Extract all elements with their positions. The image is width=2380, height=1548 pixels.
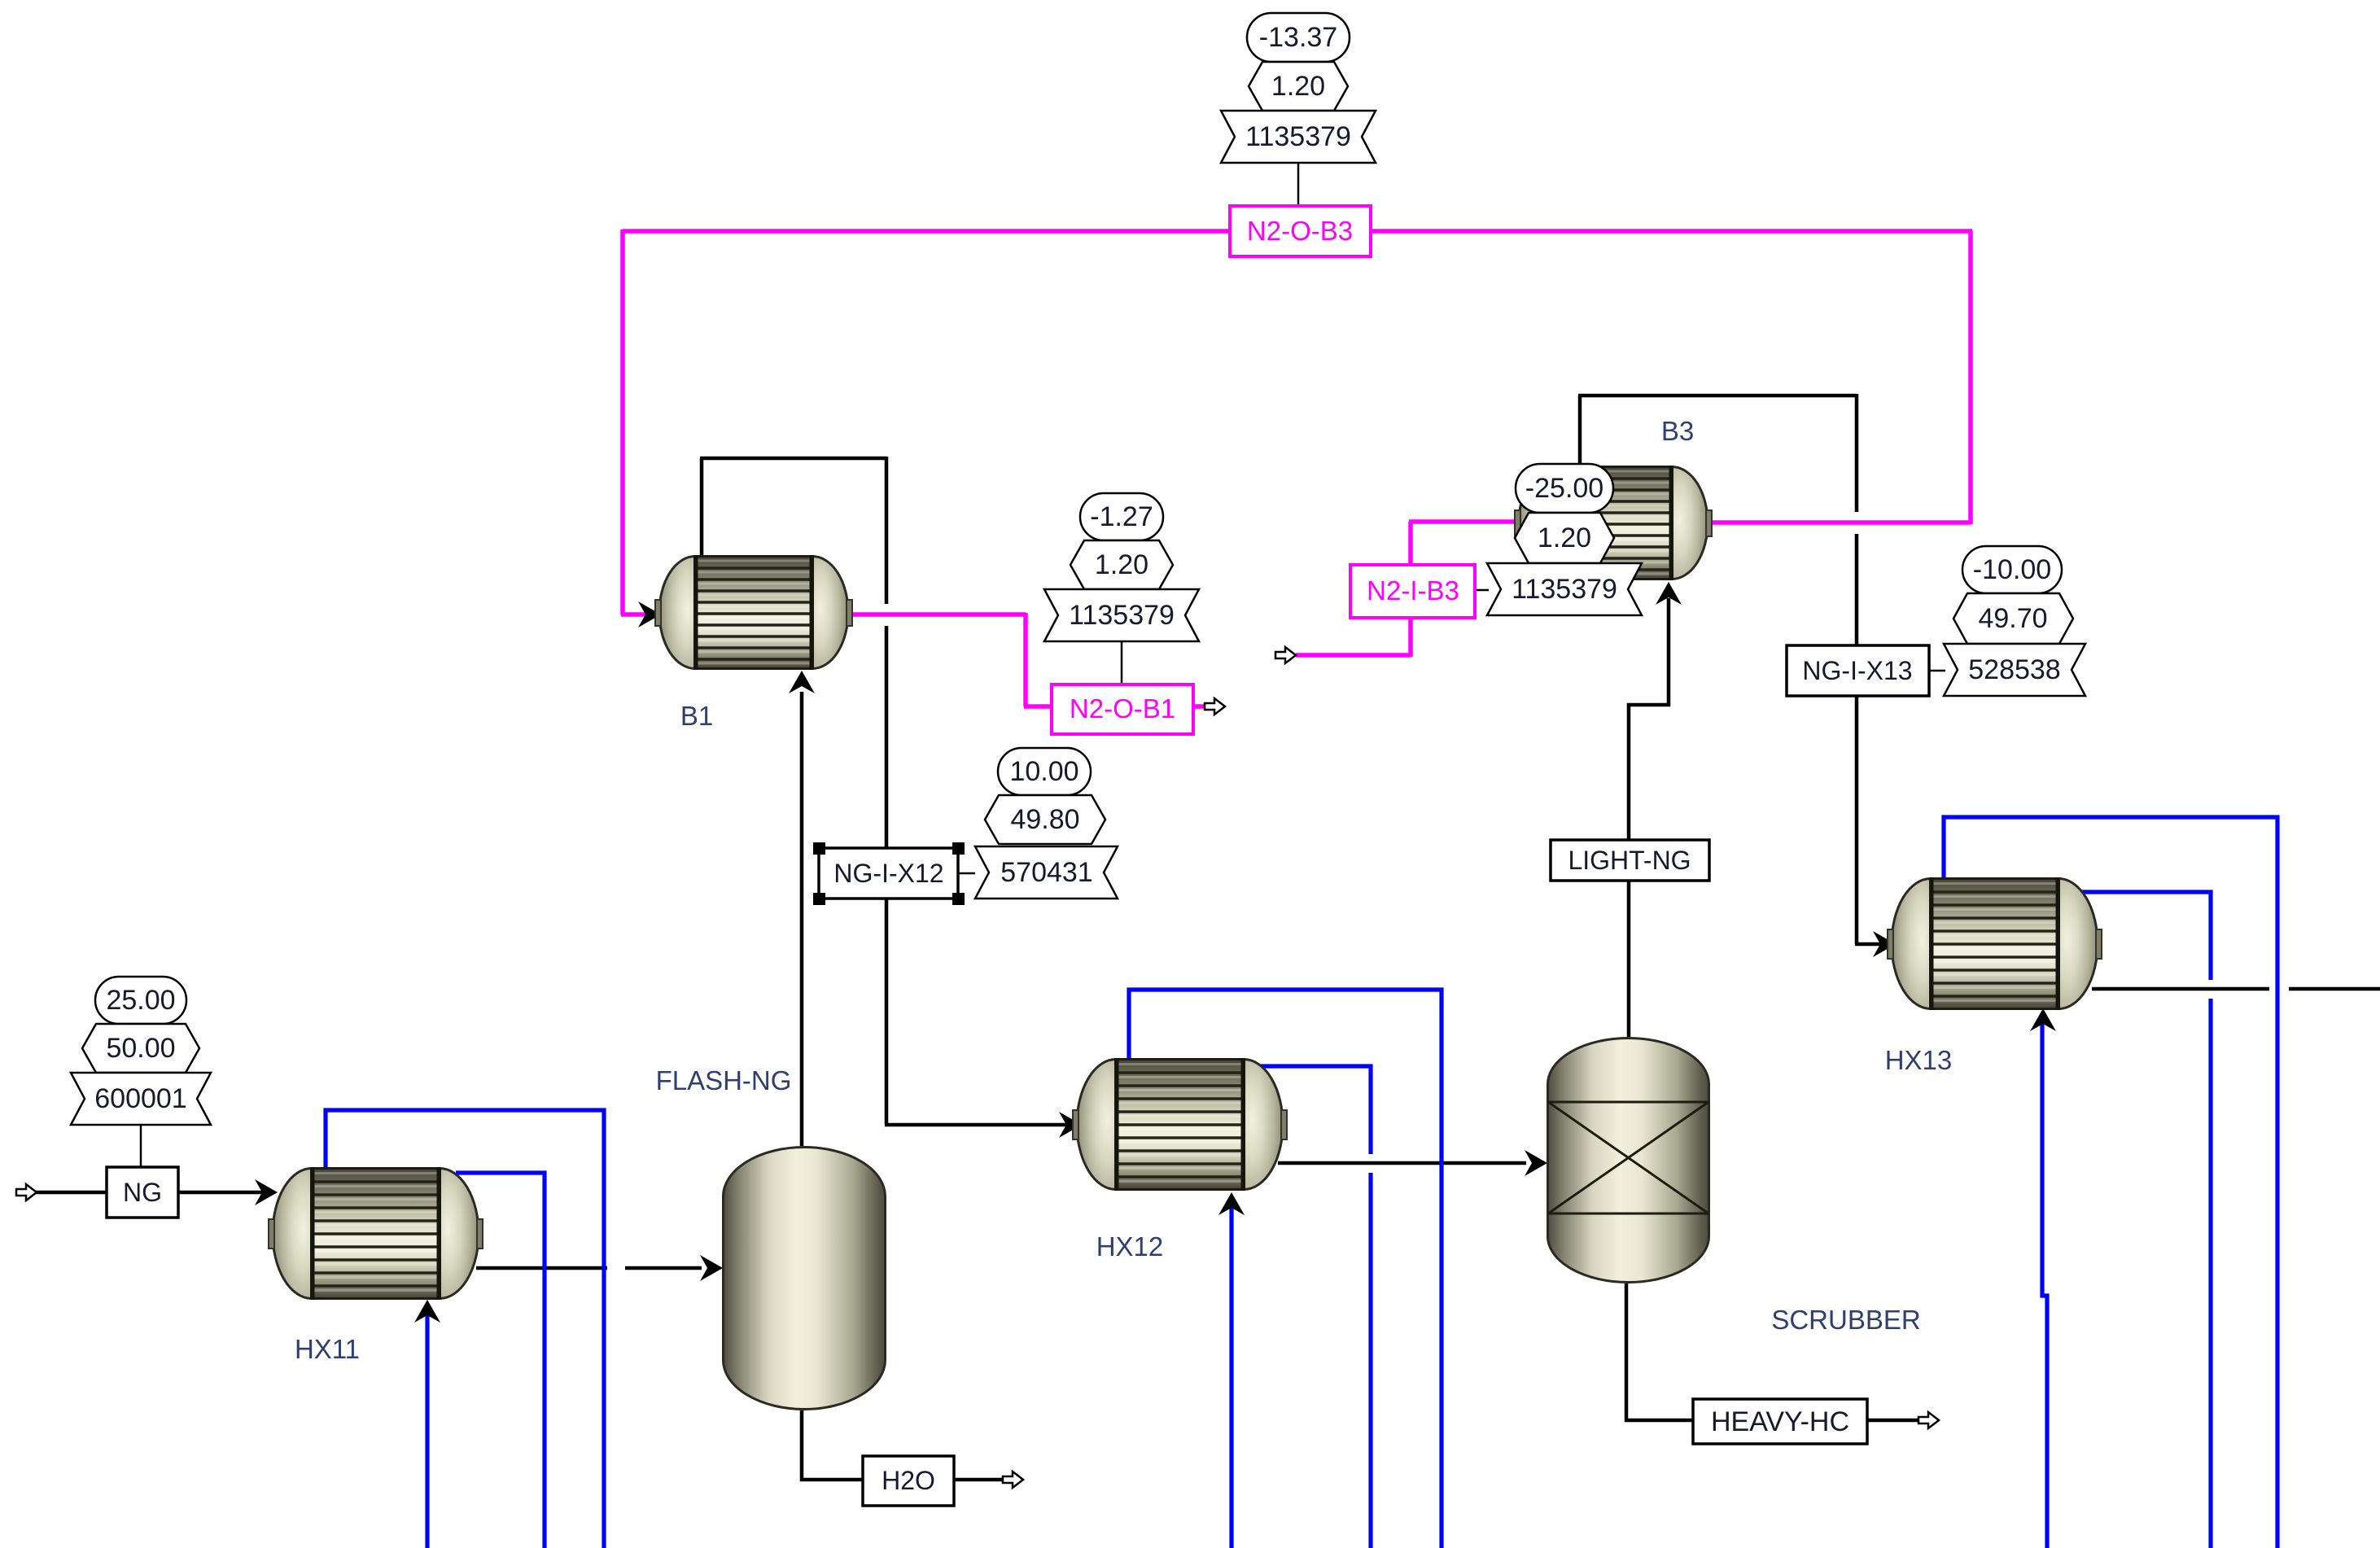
wire stream HX12 outlet to SCRUBBER — [1278, 1161, 1526, 1165]
wire stream HX13 outlet (right of blue hop) — [2289, 987, 2380, 991]
wire stream N2-I-B3 into B3 inlet — [1409, 519, 1519, 524]
svg-text:HX11: HX11 — [295, 1334, 360, 1364]
wire stream B1 top loop up segment — [700, 458, 704, 557]
selection handles NG-I-X12 — [813, 842, 965, 905]
svg-text:-13.37: -13.37 — [1259, 22, 1337, 53]
wire stream SCRUBBER bottom HEAVY-HC segment — [1626, 1283, 1693, 1420]
flag flow 1135379 (stream N2-O-B1) — [1044, 589, 1199, 641]
heat exchanger HX11 — [269, 1167, 483, 1300]
wire stream FLASH-NG bottom H2O down segment — [802, 1410, 863, 1480]
svg-text:SCRUBBER: SCRUBBER — [1771, 1305, 1920, 1335]
wire stream N2-O-B1 into label box — [1024, 704, 1052, 709]
source arrow N2-I-B3 feed — [1275, 647, 1296, 663]
flag connector line NG-I-X13 — [1929, 670, 1945, 672]
svg-text:HX13: HX13 — [1885, 1045, 1953, 1075]
stream label box N2-O-B1 — [1052, 684, 1193, 734]
wire stream N2-O-B1 drop segment — [1023, 613, 1028, 706]
wire stream B3 top loop up segment — [1578, 396, 1582, 467]
arrowhead into B1 inlet — [638, 601, 661, 628]
arrowhead into HX12 bottom (utility) — [1218, 1192, 1245, 1215]
wire utility HX11 inlet riser — [425, 1310, 429, 1548]
wire stream N2-O-B3 into B1 inlet — [621, 612, 647, 617]
flag connector line N2-I-B3 — [1475, 589, 1489, 592]
arrowhead into HX13 bottom (utility) — [2030, 1008, 2056, 1031]
wire stream LIGHT-NG mid segment with jog — [1629, 598, 1669, 840]
stream label box H2O — [863, 1456, 954, 1506]
flag connector line NG-I-X12 — [958, 872, 975, 875]
svg-text:1.20: 1.20 — [1271, 71, 1325, 102]
flag temperature 10.00 (stream NG-I-X12) — [998, 748, 1091, 795]
svg-text:49.70: 49.70 — [1978, 603, 2047, 634]
flag pressure 49.80 (stream NG-I-X12) — [985, 795, 1105, 844]
flag connector line NG — [140, 1125, 142, 1167]
sink arrow N2-O-B1 — [1205, 698, 1225, 715]
arrowhead into B1 bottom — [789, 671, 815, 693]
svg-text:-10.00: -10.00 — [1973, 554, 2051, 585]
wire stream N2-O-B1 stub to sink arrow — [1193, 704, 1205, 709]
wire stream N2-I-B3 feed horizontal — [1296, 653, 1411, 658]
svg-text:570431: 570431 — [1000, 857, 1092, 888]
flag flow 570431 (stream NG-I-X12) — [975, 846, 1118, 899]
arrowhead into HX11 inlet — [255, 1179, 278, 1205]
wire utility HX13 second line lower — [2208, 999, 2212, 1548]
arrowhead into HX11 bottom (utility) — [414, 1300, 440, 1323]
wire utility HX11 second line — [456, 1173, 545, 1548]
svg-text:NG-I-X12: NG-I-X12 — [833, 859, 943, 888]
wire utility HX13 out top loop — [1944, 817, 2277, 1548]
flag pressure 1.20 (stream N2-O-B3) — [1249, 62, 1348, 111]
wire stream N2-O-B3 left riser down to B1 — [620, 230, 625, 614]
arrowhead into HX12 inlet — [1059, 1112, 1082, 1138]
flag flow 528538 (stream NG-I-X13) — [1944, 644, 2085, 696]
flag flow 1135379 (stream N2-O-B3) — [1221, 111, 1376, 163]
sink arrow H2O — [1003, 1471, 1023, 1488]
wire stream N2-I-B3 riser — [1408, 522, 1413, 657]
svg-text:49.80: 49.80 — [1010, 804, 1079, 835]
wire stream NG-I-X13 to HX13 inlet segment — [1855, 942, 1880, 947]
source arrow NG feed — [16, 1184, 37, 1200]
arrowhead into SCRUBBER inlet — [1525, 1150, 1547, 1176]
stream label box LIGHT-NG — [1551, 840, 1709, 881]
wire stream N2-O-B1 from B1 outlet — [850, 612, 1026, 617]
svg-text:N2-I-B3: N2-I-B3 — [1367, 575, 1459, 606]
flag connector line N2-O-B1 — [1121, 641, 1123, 684]
wire stream FLASH-NG vapor to B1 bottom — [800, 692, 804, 1146]
flag temperature -25.00 (stream N2-I-B3) — [1516, 464, 1613, 513]
wire stream B1 loop horizontal segment — [700, 457, 886, 461]
heat exchanger HX13 — [1888, 877, 2102, 1010]
svg-text:50.00: 50.00 — [106, 1033, 175, 1064]
flag flow 600001 (stream NG) — [71, 1073, 211, 1125]
svg-text:FLASH-NG: FLASH-NG — [656, 1065, 792, 1095]
wire utility HX12 second line upper — [1260, 1066, 1371, 1154]
arrowhead into FLASH-NG inlet — [700, 1255, 723, 1281]
heater B3 — [1515, 466, 1712, 580]
flag flow 1135379 (stream N2-I-B3) — [1487, 563, 1642, 615]
flag connector line N2-O-B3 — [1297, 163, 1300, 206]
wire stream B1 loop down segment (below magenta hop) — [885, 626, 889, 1125]
heat exchanger HX12 — [1073, 1058, 1287, 1191]
svg-text:10.00: 10.00 — [1009, 756, 1078, 787]
wire stream N2-O-B3 right riser up — [1968, 231, 1973, 524]
svg-text:HX12: HX12 — [1096, 1231, 1164, 1262]
flag temperature -1.27 (stream N2-O-B1) — [1080, 493, 1163, 540]
svg-text:1.20: 1.20 — [1095, 549, 1148, 580]
wire stream N2-O-B3 top horizontal left of box — [623, 229, 1230, 234]
svg-text:HEAVY-HC: HEAVY-HC — [1711, 1406, 1849, 1437]
svg-text:LIGHT-NG: LIGHT-NG — [1568, 846, 1691, 875]
stream label box NG-I-X12 (selected) — [819, 848, 958, 899]
wire utility HX11 out top loop — [326, 1110, 604, 1548]
svg-text:B1: B1 — [680, 701, 713, 731]
packed column SCRUBBER — [1548, 1039, 1709, 1283]
flag temperature -10.00 (stream NG-I-X13) — [1962, 546, 2062, 593]
stream label box N2-O-B3 — [1230, 206, 1371, 256]
wire stream B1 loop down segment (above magenta hop) — [885, 457, 889, 604]
wire utility HX12 out top loop — [1129, 990, 1442, 1548]
flag pressure 1.20 (stream N2-O-B1) — [1070, 540, 1173, 589]
wire utility HX12 second line lower — [1368, 1173, 1372, 1548]
wire stream H2O box to sink arrow — [954, 1478, 1003, 1482]
wire stream SCRUBBER top LIGHT-NG lower segment — [1627, 881, 1631, 1037]
wire utility HX13 inlet riser with jog — [2042, 1019, 2047, 1548]
wire stream HX13 outlet (left of blue hop) — [2092, 987, 2269, 991]
svg-text:1135379: 1135379 — [1069, 600, 1175, 631]
flag pressure 1.20 (stream N2-I-B3) — [1515, 513, 1614, 563]
svg-text:N2-O-B3: N2-O-B3 — [1247, 216, 1353, 246]
flag temperature 25.00 (stream NG) — [95, 977, 186, 1024]
svg-text:25.00: 25.00 — [106, 985, 175, 1016]
svg-text:600001: 600001 — [94, 1083, 186, 1114]
wire stream B3 loop down segment (above magenta hop) — [1855, 394, 1859, 512]
svg-text:1135379: 1135379 — [1512, 574, 1617, 605]
wire stream B3 loop horizontal segment — [1578, 394, 1857, 398]
stream label box HEAVY-HC — [1693, 1399, 1867, 1444]
svg-text:N2-O-B1: N2-O-B1 — [1070, 693, 1175, 724]
flag temperature -13.37 (stream N2-O-B3) — [1247, 13, 1350, 62]
svg-text:NG: NG — [123, 1178, 162, 1207]
stream label box NG — [107, 1167, 178, 1218]
flag pressure 49.70 (stream NG-I-X13) — [1953, 593, 2073, 644]
svg-text:H2O: H2O — [882, 1466, 935, 1495]
wire stream B1 loop to HX12 inlet segment — [885, 1123, 1066, 1127]
sink arrow HEAVY-HC — [1918, 1412, 1939, 1428]
svg-text:NG-I-X13: NG-I-X13 — [1802, 656, 1912, 685]
stream label box NG-I-X13 — [1787, 645, 1929, 696]
wire stream N2-O-B3 from B3 outlet to right riser — [1709, 520, 1971, 525]
flash drum FLASH-NG — [724, 1148, 886, 1410]
svg-text:-25.00: -25.00 — [1525, 473, 1603, 504]
svg-text:528538: 528538 — [1968, 654, 2060, 685]
wire stream NG feed segment — [35, 1191, 107, 1195]
wire stream N2-O-B3 top horizontal right of box — [1371, 229, 1972, 234]
stream label box N2-I-B3 — [1350, 565, 1475, 618]
flag pressure 50.00 (stream NG) — [82, 1024, 199, 1073]
heater B1 — [655, 555, 852, 670]
svg-text:1135379: 1135379 — [1245, 121, 1351, 152]
wire utility HX12 inlet riser — [1229, 1203, 1233, 1548]
arrowhead into B3 bottom — [1656, 582, 1682, 605]
wire stream NG box-to-HX11 segment — [178, 1191, 262, 1195]
arrowhead into HX13 inlet — [1873, 931, 1896, 957]
wire stream HX11 outlet to FLASH-NG (left part) — [476, 1266, 607, 1270]
wire stream B3 loop down segment (below magenta hop) — [1855, 534, 1859, 944]
svg-text:1.20: 1.20 — [1538, 523, 1591, 553]
svg-text:-1.27: -1.27 — [1090, 501, 1153, 532]
svg-text:B3: B3 — [1661, 416, 1694, 446]
wire utility HX13 second line upper — [2074, 892, 2211, 980]
wire stream HEAVY-HC box to sink arrow — [1867, 1419, 1918, 1423]
wire stream HX11 outlet to FLASH-NG (right part after blue hop) — [625, 1266, 702, 1270]
